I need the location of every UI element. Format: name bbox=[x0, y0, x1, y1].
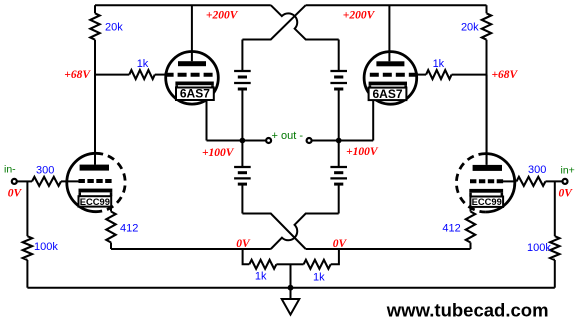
svg-text:1k: 1k bbox=[313, 272, 325, 284]
wire out- to U2 cathode bbox=[312, 140, 373, 142]
svg-text:+100V: +100V bbox=[202, 147, 235, 159]
resistor R1 20k (left) bbox=[94, 5, 96, 13]
svg-text:www.tubecad.com: www.tubecad.com bbox=[386, 299, 549, 320]
svg-text:100k: 100k bbox=[527, 242, 551, 254]
svg-text:in+: in+ bbox=[561, 165, 575, 177]
battery B4 (lower right) bbox=[330, 167, 347, 184]
wire 20k-right to +68V node bbox=[486, 40, 488, 75]
svg-text:412: 412 bbox=[120, 223, 138, 235]
terminal out+ bbox=[266, 138, 271, 143]
svg-text:1k: 1k bbox=[255, 271, 267, 283]
wire battery B4 top lead bbox=[338, 141, 340, 168]
wire battery B3 top lead bbox=[241, 141, 243, 168]
battery B2 (upper right) bbox=[330, 71, 347, 89]
wire left step to 1k row bbox=[243, 249, 250, 264]
svg-text:100k: 100k bbox=[34, 241, 58, 253]
svg-text:+200V: +200V bbox=[343, 10, 376, 22]
svg-text:6AS7: 6AS7 bbox=[180, 87, 210, 101]
wire top-right rail (+200V right net) bbox=[306, 4, 487, 6]
node +100V right junction bbox=[336, 138, 342, 144]
wire battery B1 top lead bbox=[241, 40, 243, 72]
tube U2 6AS7 (right) bbox=[364, 5, 418, 140]
wire center tap to ground rail bbox=[290, 264, 292, 287]
svg-text:+200V: +200V bbox=[206, 10, 239, 22]
wire battery B4 bottom lead bbox=[338, 184, 340, 213]
wire battery B1 to +100V-left node bbox=[241, 89, 243, 141]
svg-text:20k: 20k bbox=[461, 22, 479, 34]
wire right step from 1k row bbox=[331, 249, 339, 264]
svg-text:300: 300 bbox=[528, 164, 546, 176]
ground bbox=[282, 288, 300, 315]
svg-text:1k: 1k bbox=[137, 58, 149, 70]
svg-text:20k: 20k bbox=[105, 22, 123, 34]
tube U1 6AS7 (left) bbox=[165, 5, 219, 140]
svg-text:+100V: +100V bbox=[346, 146, 379, 158]
wire 0V rail left bbox=[111, 248, 271, 250]
resistor R2 20k (right) bbox=[486, 5, 488, 13]
battery B3 (lower left) bbox=[234, 167, 251, 184]
svg-text:ECC99: ECC99 bbox=[472, 196, 502, 207]
wire top crossover right-rail to left battery bbox=[242, 5, 305, 39]
resistor R3 1k (left grid) bbox=[95, 74, 129, 76]
terminal in+ bbox=[563, 179, 568, 184]
wire 0V rail right bbox=[306, 248, 471, 250]
svg-text:1k: 1k bbox=[433, 58, 445, 70]
resistor R6 300 (right grid stopper) bbox=[546, 180, 562, 182]
svg-text:+68V: +68V bbox=[64, 69, 91, 81]
svg-text:0V: 0V bbox=[236, 238, 251, 250]
resistor R5 300 (left grid stopper) bbox=[17, 180, 32, 182]
svg-text:+ out -: + out - bbox=[272, 130, 304, 142]
svg-text:6AS7: 6AS7 bbox=[372, 87, 402, 101]
wire battery B3 bottom lead bbox=[241, 184, 243, 213]
resistor R9 100k (left) bbox=[26, 181, 28, 236]
wire 20k-left to +68V node bbox=[94, 40, 96, 75]
resistor R12 412 (right) bbox=[466, 212, 475, 243]
svg-text:ECC99: ECC99 bbox=[80, 196, 110, 207]
tube U3 ECC99 (left) bbox=[67, 75, 125, 212]
battery B1 (upper left) bbox=[234, 71, 251, 89]
resistor R7 1k (bottom left) bbox=[249, 260, 276, 269]
resistor R11 412 (left) bbox=[106, 212, 115, 243]
svg-text:0V: 0V bbox=[333, 238, 348, 250]
tube U4 ECC99 (right) bbox=[456, 75, 514, 212]
wire battery B2 to +100V-right node bbox=[338, 89, 340, 141]
wire battery B2 top lead bbox=[338, 40, 340, 72]
svg-text:in-: in- bbox=[4, 163, 16, 175]
resistor R4 1k (right grid) bbox=[452, 74, 487, 76]
terminal out- bbox=[307, 138, 312, 143]
node +100V left junction bbox=[240, 138, 246, 144]
svg-text:0V: 0V bbox=[8, 188, 23, 200]
svg-text:+68V: +68V bbox=[492, 69, 519, 81]
svg-text:300: 300 bbox=[36, 165, 54, 177]
wire bottom crossover right battery to left 0V rail (with hop) bbox=[271, 214, 339, 250]
terminal in- bbox=[12, 179, 17, 184]
wire top crossover left-rail to right battery (with hop) bbox=[271, 5, 339, 39]
wire +68V-right node to ECC99-right plate bbox=[486, 75, 488, 165]
wire +68V-left node to ECC99-left plate bbox=[94, 75, 96, 165]
resistor R10 100k (right) bbox=[554, 181, 556, 236]
resistor R8 1k (bottom right) bbox=[291, 263, 304, 265]
svg-text:0V: 0V bbox=[559, 188, 574, 200]
wire top-left rail (+200V left net) bbox=[95, 4, 271, 6]
svg-text:412: 412 bbox=[442, 223, 460, 235]
wire U1 cathode to out+ bbox=[207, 140, 266, 142]
node ground junction bbox=[288, 285, 294, 291]
wire bottom crossover left battery to right 0V rail bbox=[242, 214, 305, 250]
wire bottom rail bbox=[27, 287, 554, 289]
